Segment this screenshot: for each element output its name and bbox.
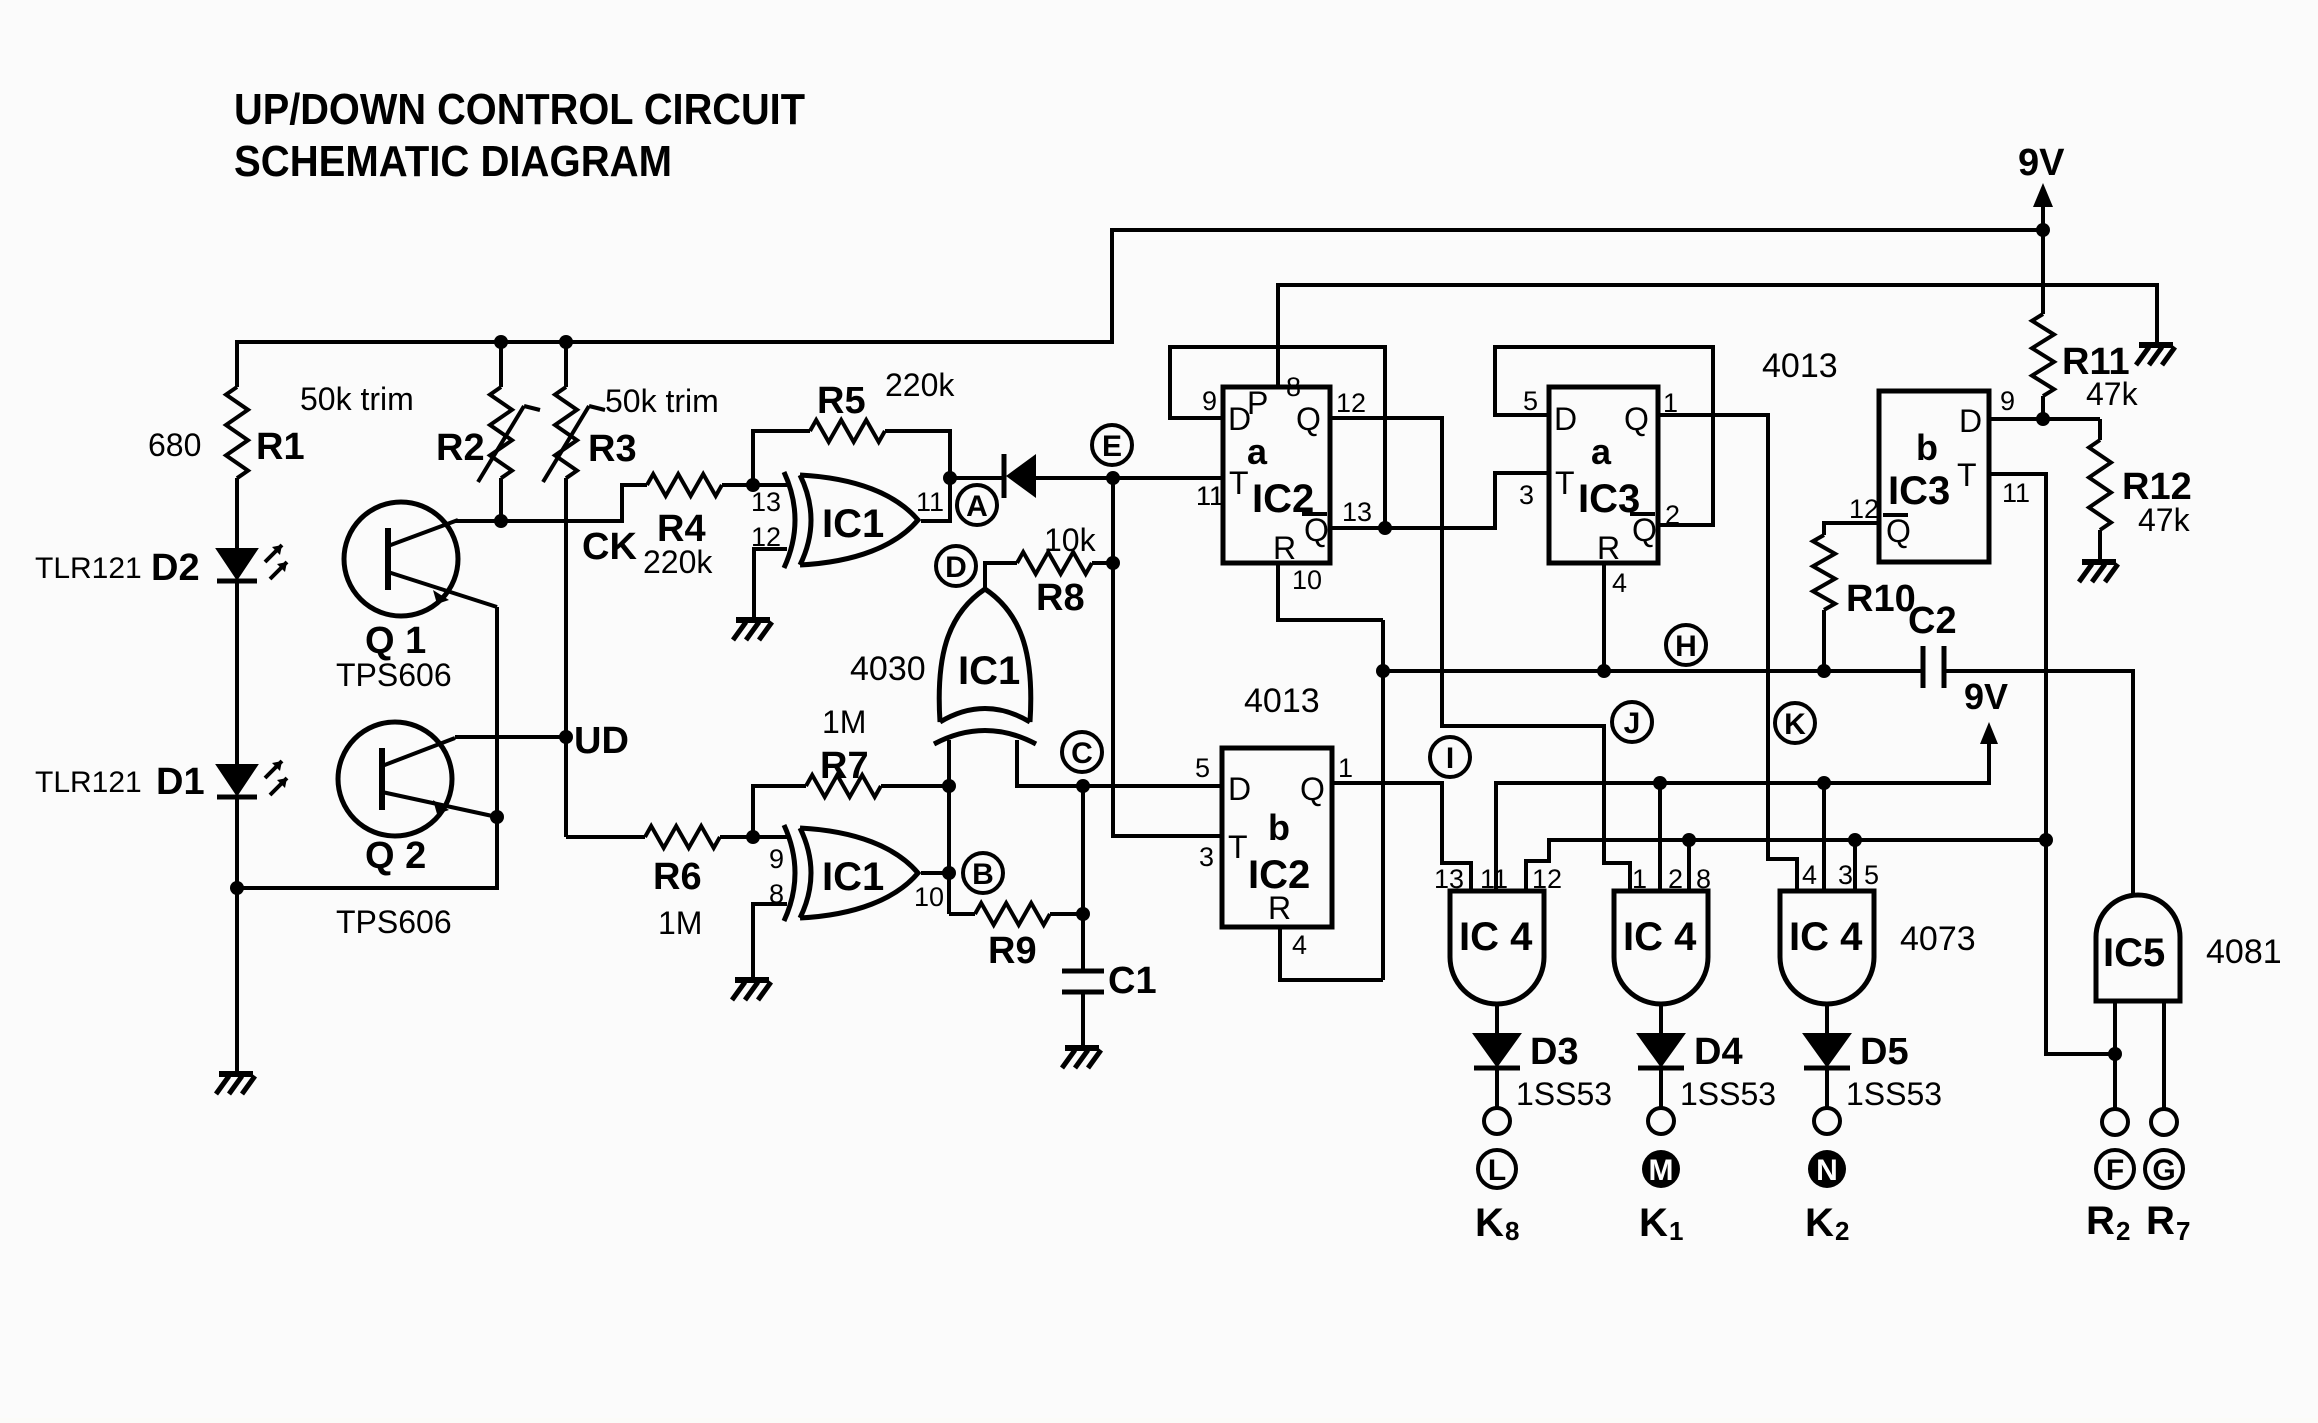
svg-text:8: 8 (1286, 372, 1301, 402)
wire B vertical (947, 740, 951, 914)
wire E vertical (1113, 478, 1223, 836)
svg-text:T: T (1229, 465, 1249, 501)
transistor Q2 (338, 722, 497, 836)
label UD (574, 720, 629, 762)
svg-text:1SS53: 1SS53 (1846, 1076, 1942, 1112)
label R7 terminal (2146, 1199, 2190, 1246)
ground left (216, 1074, 255, 1094)
node dot R11-D9 (2036, 412, 2050, 426)
svg-text:8: 8 (1505, 1216, 1519, 1246)
svg-text:11: 11 (916, 487, 944, 517)
label C1 (1108, 960, 1157, 1002)
wire Qbar to IC3a T (1385, 473, 1549, 528)
label IC5 (2103, 931, 2165, 975)
IC3a pin numbers (1523, 386, 1680, 598)
wire E to IC2a T (1113, 476, 1223, 480)
svg-text:R: R (1273, 530, 1296, 566)
node A dot (943, 471, 957, 485)
wire 4030 right input to C (1017, 740, 1223, 786)
IC4a pin numbers (1434, 864, 1562, 894)
IC3a labels (1554, 401, 1657, 566)
xor gate IC1b (784, 825, 918, 921)
label D2 (35, 547, 200, 589)
wire pin9 (753, 835, 787, 839)
wire IC2a P to ground rail (1278, 285, 2157, 387)
node dot R2-CK (494, 514, 508, 528)
diode A-E (1004, 454, 1036, 498)
wire IC1b output (921, 871, 949, 875)
IC2b pin numbers (1292, 753, 1353, 960)
node dot IC3aR-H (1597, 664, 1611, 678)
ground below C1 (1062, 1048, 1101, 1068)
svg-text:4: 4 (1292, 930, 1307, 960)
svg-text:9: 9 (2000, 386, 2015, 416)
label D4 (1680, 1031, 1776, 1112)
label 4073 (1900, 920, 1976, 958)
svg-text:K: K (1784, 708, 1806, 741)
svg-text:J: J (1624, 707, 1641, 740)
svg-text:R5: R5 (817, 380, 866, 422)
IC2a pin numbers (1196, 372, 1372, 595)
svg-text:R1: R1 (256, 426, 305, 468)
node E dot (1106, 471, 1120, 485)
node A (957, 485, 997, 525)
label 4013 left (1244, 682, 1320, 720)
wire pin3 stub (1822, 783, 1826, 891)
terminal circle D3 (1484, 1108, 1510, 1134)
label D1 (35, 761, 205, 803)
LED D1 (217, 761, 287, 797)
svg-text:R7: R7 (820, 745, 869, 787)
label R10 (1846, 578, 1916, 620)
svg-text:4081: 4081 (2206, 933, 2282, 971)
svg-text:4030: 4030 (850, 650, 926, 688)
pin 11 IC2a (1196, 481, 1224, 511)
and gate IC4b (1614, 891, 1708, 1004)
svg-text:3: 3 (1838, 860, 1853, 890)
diode D3 (1474, 1034, 1520, 1068)
svg-text:IC 4: IC 4 (1623, 915, 1697, 959)
wire D3 to terminal (1495, 1068, 1499, 1109)
svg-text:K: K (1639, 1201, 1668, 1245)
svg-text:UP/DOWN CONTROL CIRCUIT: UP/DOWN CONTROL CIRCUIT (234, 85, 805, 134)
svg-text:1: 1 (1338, 753, 1353, 783)
svg-text:IC1: IC1 (958, 649, 1020, 693)
node H (1666, 625, 1706, 665)
wire I from IC2b Q (1332, 783, 1471, 891)
IC3b pin numbers (1849, 386, 2030, 524)
capacitor C2 (1923, 646, 1944, 688)
node dot 9V-R11 (2036, 223, 2050, 237)
svg-text:9V: 9V (2018, 142, 2065, 184)
svg-text:B: B (972, 858, 994, 891)
svg-text:220k: 220k (885, 367, 955, 403)
trimmer R2 (478, 342, 540, 521)
transistor Q1 (344, 502, 497, 616)
svg-text:R10: R10 (1846, 578, 1916, 620)
node C (1062, 732, 1102, 772)
svg-text:a: a (1247, 431, 1268, 472)
svg-text:R2: R2 (436, 427, 485, 469)
svg-text:4: 4 (1612, 568, 1627, 598)
pin 13 (751, 487, 781, 517)
svg-text:3: 3 (1519, 480, 1534, 510)
svg-text:11: 11 (1196, 481, 1224, 511)
wire 9V rail left (237, 230, 2043, 387)
svg-text:Q: Q (1296, 401, 1321, 437)
IC4b pin numbers (1632, 864, 1711, 894)
wire Q2 collector UD (455, 735, 566, 739)
wire Q1 collector CK (455, 485, 647, 521)
node dot pin2 branch (1653, 776, 1667, 790)
label R8 (1036, 522, 1097, 619)
svg-text:4013: 4013 (1762, 347, 1838, 385)
wire IC5 out G (2162, 1001, 2166, 1110)
svg-text:3: 3 (1199, 842, 1214, 872)
svg-text:12: 12 (1532, 864, 1562, 894)
svg-text:N: N (1816, 1154, 1838, 1187)
flip-flop IC3a box (1549, 387, 1658, 563)
svg-text:5: 5 (1864, 860, 1879, 890)
svg-text:9V: 9V (1964, 676, 2008, 717)
svg-text:K: K (1805, 1201, 1834, 1245)
svg-text:11: 11 (1480, 864, 1508, 894)
label IC4a (1459, 915, 1533, 959)
svg-text:Q 1: Q 1 (365, 620, 426, 662)
label K8 (1475, 1201, 1519, 1246)
label R1 (148, 426, 305, 468)
node dot Q2 emitter (490, 810, 504, 824)
svg-text:IC3: IC3 (1888, 469, 1950, 513)
wire IC3a R (1602, 563, 1606, 671)
node dot rail-R3 (559, 335, 573, 349)
wire D1-ground (230, 797, 244, 1072)
pin 5 IC2b (1195, 753, 1210, 783)
label 4030 (850, 650, 926, 688)
svg-text:TLR121: TLR121 (35, 552, 142, 585)
node J (1612, 702, 1652, 742)
node dot pin9 (746, 830, 760, 844)
pin 12 (751, 522, 781, 552)
svg-text:5: 5 (1195, 753, 1210, 783)
wire D4 to terminal (1659, 1068, 1663, 1109)
node D (936, 546, 976, 586)
svg-text:D1: D1 (156, 761, 205, 803)
node dot K line (2039, 833, 2053, 847)
svg-text:4: 4 (1802, 860, 1817, 890)
wire IC1a output (921, 478, 950, 521)
IC2a labels (1228, 385, 1329, 566)
wire H (1383, 671, 2133, 895)
svg-text:47k: 47k (2086, 376, 2139, 412)
resistor R7 (753, 775, 949, 837)
svg-text:7: 7 (2176, 1216, 2190, 1246)
ground below IC1a (733, 620, 772, 640)
svg-text:2: 2 (2116, 1216, 2130, 1246)
trimmer R3 (543, 342, 605, 482)
svg-text:11: 11 (2002, 478, 2030, 508)
wire IC2a D loop (1170, 347, 1385, 528)
node dot Qbar13 (1378, 521, 1392, 535)
ground below R12 (2079, 562, 2118, 582)
diode D5 (1804, 1034, 1850, 1068)
svg-text:13: 13 (1434, 864, 1464, 894)
wire pin2 stub (1658, 783, 1662, 891)
svg-text:Q: Q (1304, 512, 1329, 548)
svg-text:R3: R3 (588, 428, 637, 470)
wire A to diode (950, 476, 1002, 480)
label R5 (817, 367, 955, 422)
capacitor C1 (1062, 971, 1104, 1046)
node I (1430, 737, 1470, 777)
svg-text:1SS53: 1SS53 (1680, 1076, 1776, 1112)
svg-text:E: E (1102, 430, 1122, 463)
node F (2096, 1150, 2134, 1188)
node L (1478, 1150, 1516, 1188)
svg-text:TPS606: TPS606 (336, 657, 452, 693)
svg-text:1M: 1M (822, 704, 866, 740)
node dot F junction (2108, 1047, 2122, 1061)
svg-text:T: T (1957, 457, 1977, 493)
svg-text:5: 5 (1523, 386, 1538, 416)
label D5 (1846, 1031, 1942, 1112)
svg-text:M: M (1649, 1154, 1674, 1187)
wire IC5 out F (2113, 1001, 2117, 1110)
svg-text:K: K (1475, 1201, 1504, 1245)
svg-text:1M: 1M (658, 905, 702, 941)
wire IC3a D loop (1495, 347, 1713, 525)
svg-text:680: 680 (148, 427, 201, 463)
IC4c pin numbers (1802, 860, 1879, 890)
svg-text:10k: 10k (1044, 522, 1097, 558)
wire IC4 out to D3 (1495, 1004, 1499, 1034)
node N (1808, 1150, 1846, 1188)
xor gate IC1c 4030 (934, 589, 1036, 744)
svg-text:R: R (1597, 530, 1620, 566)
svg-text:IC5: IC5 (2103, 931, 2165, 975)
wire IC4 out to D4 (1659, 1004, 1663, 1034)
svg-text:Q 2: Q 2 (365, 835, 426, 877)
svg-text:1SS53: 1SS53 (1516, 1076, 1612, 1112)
wire diode to E (1036, 476, 1113, 480)
label IC1b (822, 855, 884, 899)
label R2 terminal (2086, 1199, 2130, 1246)
label IC4b (1623, 915, 1697, 959)
and gate IC4a (1450, 891, 1544, 1004)
svg-text:T: T (1228, 829, 1248, 865)
svg-text:2: 2 (1835, 1216, 1849, 1246)
label 4081 (2206, 933, 2282, 971)
svg-text:SCHEMATIC DIAGRAM: SCHEMATIC DIAGRAM (234, 137, 672, 186)
svg-text:47k: 47k (2138, 502, 2191, 538)
node dot B-R7 (942, 779, 956, 793)
resistor R10 (1813, 523, 1879, 671)
node dot pin3 branch (1817, 776, 1831, 790)
IC2b labels (1228, 771, 1325, 926)
resistor R6 (645, 826, 753, 848)
pin 10 (914, 882, 944, 912)
and gate IC5 (2096, 895, 2180, 1001)
resistor R12 (2089, 419, 2111, 560)
svg-text:a: a (1591, 431, 1612, 472)
svg-text:D: D (1959, 403, 1982, 439)
svg-text:50k trim: 50k trim (605, 383, 719, 419)
resistor R11 (2032, 230, 2054, 419)
svg-text:D2: D2 (151, 547, 200, 589)
pin 3 IC2b (1199, 842, 1214, 872)
wire D2-D1 (235, 581, 239, 765)
node dot H start (1376, 664, 1390, 678)
wire IC2a R (1278, 563, 1383, 620)
node C dot (1076, 779, 1090, 793)
wire IC3a Q K path (1658, 415, 1797, 891)
label K1 (1639, 1201, 1683, 1246)
resistor R4 (647, 474, 787, 496)
label IC1a (822, 502, 884, 546)
svg-text:50k trim: 50k trim (300, 381, 414, 417)
pin 11 (916, 487, 944, 517)
title text (234, 85, 805, 186)
and gate IC4c (1780, 891, 1874, 1004)
svg-text:IC 4: IC 4 (1789, 915, 1863, 959)
ground below IC1b (732, 980, 771, 1000)
svg-text:T: T (1555, 465, 1575, 501)
label R2 (300, 381, 485, 469)
label 4013 right (1762, 347, 1838, 385)
svg-text:F: F (2106, 1154, 2124, 1187)
svg-text:b: b (1916, 427, 1938, 468)
svg-text:IC 4: IC 4 (1459, 915, 1533, 959)
svg-text:C: C (1071, 737, 1093, 770)
label R11 (2062, 341, 2139, 412)
label IC4c (1789, 915, 1863, 959)
diode D4 (1638, 1034, 1684, 1068)
svg-text:TLR121: TLR121 (35, 766, 142, 799)
wire carry line pin12 (1526, 840, 2046, 891)
label CK (582, 526, 637, 568)
wire pin8 to ground (753, 904, 787, 978)
label IC1c (958, 649, 1020, 693)
resistor R8 (985, 552, 1113, 589)
svg-text:1: 1 (1669, 1216, 1683, 1246)
wire pin5 stub (1853, 840, 1857, 891)
node E (1092, 425, 1132, 465)
svg-text:10: 10 (914, 882, 944, 912)
label R12 (2122, 466, 2192, 538)
svg-text:13: 13 (1342, 497, 1372, 527)
wire R net vertical (1381, 620, 1385, 980)
node dot rail-R2 (494, 335, 508, 349)
svg-text:D: D (1228, 771, 1251, 807)
flip-flop IC2b box (1222, 748, 1332, 927)
svg-text:D5: D5 (1860, 1031, 1909, 1073)
label R3 (588, 383, 719, 470)
wire IC3b T (1989, 474, 2115, 1054)
node dot pin5 branch (1848, 833, 1862, 847)
node B (963, 853, 1003, 893)
resistor R9 (949, 903, 1083, 925)
svg-text:12: 12 (1336, 388, 1366, 418)
svg-text:9: 9 (1202, 386, 1217, 416)
9V arrow mid (1964, 676, 2008, 744)
wire IC3b D (1989, 417, 2100, 421)
svg-text:D3: D3 (1530, 1031, 1579, 1073)
svg-text:8: 8 (1696, 864, 1711, 894)
svg-text:G: G (2152, 1154, 2175, 1187)
label Q2 (336, 835, 452, 940)
svg-text:10: 10 (1292, 565, 1322, 595)
wire IC2b R (1280, 927, 1383, 980)
LED D2 (217, 545, 287, 581)
label Q1 (336, 620, 452, 693)
svg-text:R6: R6 (653, 856, 702, 898)
terminal circle D5 (1814, 1108, 1840, 1134)
label R7 (820, 704, 869, 787)
9V supply arrow top right (2018, 142, 2065, 230)
svg-text:D: D (945, 551, 967, 584)
svg-text:I: I (1446, 742, 1454, 775)
svg-text:Q: Q (1300, 771, 1325, 807)
svg-text:R: R (1268, 890, 1291, 926)
wire IC2a Q J path (1330, 418, 1630, 891)
pin 8 (769, 879, 784, 909)
IC3b labels (1883, 403, 1982, 549)
svg-text:R: R (2146, 1199, 2175, 1243)
node M (1642, 1150, 1680, 1188)
label R6 (653, 856, 702, 941)
label C2 (1908, 600, 1957, 642)
flip-flop IC2a box (1223, 387, 1330, 563)
svg-text:IC1: IC1 (822, 855, 884, 899)
node dot pin8 branch (1682, 833, 1696, 847)
node B dot out (942, 866, 956, 880)
node dot R9-C1 (1076, 907, 1090, 921)
terminal circle G (2151, 1109, 2177, 1135)
wire D5 to terminal (1825, 1068, 1829, 1109)
svg-text:Q: Q (1886, 513, 1911, 549)
wire 9V enable line (1496, 740, 1989, 891)
xor gate IC1a (784, 472, 918, 568)
label K2 (1805, 1201, 1849, 1246)
svg-text:12: 12 (1849, 494, 1879, 524)
node dot R10-H (1817, 664, 1831, 678)
svg-text:2: 2 (1668, 864, 1683, 894)
svg-text:P: P (1247, 385, 1268, 421)
wire IC4 out to D5 (1825, 1004, 1829, 1034)
node dot R4-R5 (746, 478, 760, 492)
label D3 (1516, 1031, 1612, 1112)
svg-text:D4: D4 (1694, 1031, 1743, 1073)
pin 3 IC3a (1519, 480, 1534, 510)
wire R3-UD-R6 (566, 478, 645, 837)
label R4 (643, 508, 713, 580)
svg-text:9: 9 (769, 844, 784, 874)
wire C1 branch (1081, 786, 1085, 969)
svg-text:4073: 4073 (1900, 920, 1976, 958)
node dot UD (559, 730, 573, 744)
wire Q1 emitter down (237, 607, 497, 888)
resistor R1 (226, 387, 248, 549)
svg-text:H: H (1675, 630, 1697, 663)
node G (2145, 1150, 2183, 1188)
svg-text:IC1: IC1 (822, 502, 884, 546)
wire pin12 to ground (754, 549, 787, 618)
svg-text:TPS606: TPS606 (336, 904, 452, 940)
svg-text:220k: 220k (643, 544, 713, 580)
svg-text:Q: Q (1624, 401, 1649, 437)
svg-text:R8: R8 (1036, 577, 1085, 619)
pin 9 (769, 844, 784, 874)
